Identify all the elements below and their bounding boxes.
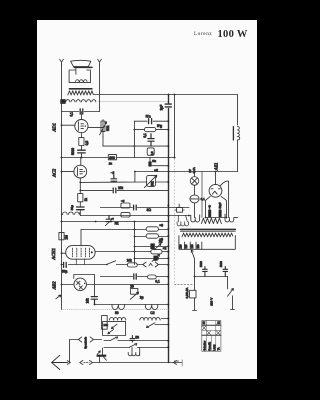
potentiometer 50k — [101, 121, 105, 132]
primary taps — [184, 242, 201, 249]
svg-text:10k: 10k — [86, 298, 90, 304]
wire grid row AD1 — [62, 111, 100, 113]
wire bar to bottom — [100, 348, 103, 363]
svg-text:R'a: R'a — [146, 115, 151, 119]
loudspeaker magnet pot — [69, 70, 90, 83]
junction x134 y251 — [134, 251, 136, 253]
coil arcs group1 — [112, 305, 124, 310]
electrolytic heater cell right — [219, 210, 222, 218]
svg-text:2µ: 2µ — [140, 295, 144, 299]
junction heater cell right — [226, 217, 228, 219]
wire antenna vertical — [70, 340, 79, 363]
arrow row258 — [152, 255, 160, 262]
wire lamp top — [194, 172, 196, 177]
wire field coil drop — [237, 95, 239, 126]
sperrkreis arrows — [78, 337, 101, 342]
pickup terminal bar — [181, 360, 183, 366]
loudspeaker cone — [71, 60, 91, 66]
tube AD1 — [75, 120, 88, 133]
wire AD1 to volume pot — [88, 120, 103, 137]
potentiometer tone 50k — [147, 175, 156, 186]
svg-text:Lang: Lang — [212, 344, 216, 350]
tube AZ1 filament — [211, 189, 220, 194]
resistor 50k row229 — [146, 227, 158, 231]
wire cap to junction — [79, 210, 81, 215]
wire right speaker lead — [99, 65, 101, 112]
coil loops y354 — [128, 348, 140, 356]
tube AB2 — [74, 278, 86, 290]
wire row y170.8 — [135, 172, 169, 183]
pot tone arrow — [144, 175, 156, 187]
junction left bus AC2 — [61, 171, 63, 173]
svg-text:10k: 10k — [103, 323, 108, 327]
tube ACH1 dot — [91, 251, 93, 253]
resistor 25k row236 — [146, 234, 158, 238]
wire Rk to bus — [150, 165, 168, 168]
svg-text:Schalter: Schalter — [202, 341, 206, 351]
junction row y221.7 c — [168, 221, 170, 223]
svg-text:125: 125 — [191, 244, 194, 249]
capacitor AD1 bypass — [78, 150, 86, 153]
band table header marks — [202, 321, 205, 324]
wire selector down — [194, 259, 196, 291]
wire row y215.8 — [80, 215, 191, 217]
junction x134 y236 — [134, 236, 136, 238]
output transformer secondary winding — [68, 91, 93, 95]
wire AZ1 heater right — [220, 181, 228, 218]
speaker terminal left — [60, 59, 64, 64]
svg-text:0,5: 0,5 — [85, 141, 89, 146]
junction row y215 right — [188, 215, 190, 217]
svg-text:10k: 10k — [127, 259, 133, 263]
resistor row264 — [127, 263, 137, 267]
speaker terminal right — [98, 59, 102, 64]
coil arcs group2 — [145, 305, 157, 310]
transformer core bottom — [180, 230, 235, 232]
loudspeaker center pole — [75, 67, 77, 74]
heater winding group1 — [177, 216, 188, 226]
mains fuse box — [190, 290, 196, 298]
switch below winding right — [146, 323, 168, 328]
capacitor 50u bus — [64, 262, 67, 267]
heater resistor left — [177, 208, 183, 213]
wire row y251.8 — [95, 251, 168, 253]
coil box partial — [102, 316, 108, 330]
svg-text:50k: 50k — [106, 125, 110, 131]
choke coil loops — [62, 212, 81, 214]
junction bus y157 — [168, 157, 170, 159]
capacitor below y215.8 — [106, 216, 112, 222]
transformer primary box — [179, 236, 235, 250]
page — [37, 20, 257, 379]
suppression cap b — [223, 267, 228, 277]
dashed link switch — [175, 284, 193, 286]
pilot lamp — [190, 177, 199, 186]
svg-text:5000: 5000 — [199, 261, 203, 267]
svg-text:=5: =5 — [121, 199, 125, 203]
wire coupling row y121 — [134, 120, 168, 122]
capacitor AC2 bypass — [77, 207, 85, 210]
svg-text:~2: ~2 — [111, 171, 115, 175]
wire AC2 cathode drop — [79, 178, 81, 194]
wire HT bus B x174 — [174, 95, 176, 158]
svg-text:300: 300 — [109, 156, 115, 160]
wire row y340.8 — [104, 340, 169, 342]
svg-text:2µ: 2µ — [159, 240, 163, 244]
resistor AC2 cathode — [78, 194, 83, 202]
tube AC2 — [74, 165, 87, 178]
heater winding group2 — [191, 218, 200, 222]
wire row y347.3 — [104, 347, 169, 349]
switch dot row264 — [106, 264, 108, 266]
svg-text:TA: TA — [218, 347, 221, 350]
junction bus B top — [174, 94, 176, 96]
wire row y146 — [103, 145, 168, 147]
wire AD1 cathode to AC2 anode — [80, 158, 82, 166]
wire AC2 grid — [62, 171, 74, 173]
resistor row251 — [151, 250, 162, 254]
capacitor AB2 out — [91, 297, 97, 305]
svg-text:0,1: 0,1 — [70, 112, 74, 117]
svg-text:R'g: R'g — [157, 124, 162, 128]
antenna big arrow — [52, 355, 68, 369]
junction x134 y146 — [134, 145, 136, 147]
junction y171.3 c — [194, 171, 196, 173]
tube AD1 electrodes — [78, 122, 83, 131]
svg-text:=2: =2 — [163, 246, 167, 250]
svg-text:=2: =2 — [154, 169, 158, 173]
capacitor series y276.9 — [134, 274, 136, 279]
svg-text:220: 220 — [179, 244, 182, 249]
wire heater cell bottom — [206, 217, 227, 219]
electrolytic row258 — [153, 256, 157, 261]
wire vertical x134 lower — [134, 222, 136, 265]
coupling dashes — [84, 362, 89, 364]
trimmer arrow — [130, 292, 138, 299]
svg-text:=9: =9 — [159, 224, 163, 228]
dashed gang link vertical — [174, 159, 176, 285]
wire winding right to bus — [161, 318, 168, 320]
wire AD1 anode stub — [80, 112, 82, 120]
tube AB2 diode plates — [77, 281, 83, 289]
band table frame — [202, 321, 221, 352]
wire vertical x134 — [133, 121, 135, 157]
junction AD1 cathode row — [80, 157, 82, 159]
output transformer core — [70, 88, 92, 90]
band table X marks — [203, 321, 220, 335]
wire row y207.5 — [100, 207, 189, 209]
resistor y276.9 — [148, 275, 157, 279]
antenna selector arrow — [97, 351, 106, 360]
junction x134 y221 — [134, 221, 136, 223]
wire bus to AB2 — [62, 284, 75, 286]
wire faint tap line y101 — [98, 100, 169, 102]
svg-text:25: 25 — [130, 285, 134, 289]
tube AC2 electrodes — [77, 168, 82, 176]
svg-text:3Ω: 3Ω — [147, 208, 152, 212]
svg-text:10k: 10k — [118, 186, 124, 190]
junction x134 y258 — [134, 258, 136, 260]
wire field coil to rectifier rail — [237, 140, 239, 172]
wire ground row y157 — [62, 157, 175, 159]
svg-text:100 W: 100 W — [218, 29, 248, 40]
wire to bypass cap — [79, 202, 81, 207]
svg-text:50k: 50k — [151, 181, 155, 187]
wire switch bottom — [231, 296, 235, 310]
loudspeaker cone base bar — [74, 66, 92, 68]
bus junction dots — [167, 120, 169, 348]
resistor row y215 upper — [121, 213, 130, 217]
wire row y304.5 — [95, 304, 169, 306]
wire ACH1 anode riser — [80, 230, 82, 246]
junction left bus ACH1 — [61, 252, 63, 254]
junction left bus y264 — [61, 264, 63, 266]
heater winding group3 — [201, 218, 221, 223]
coupling dashed double arrow — [80, 361, 93, 365]
svg-text:AD1: AD1 — [52, 123, 57, 132]
switch y347.3 — [129, 344, 136, 348]
wire long line to field coil — [93, 94, 237, 96]
band switch box — [103, 321, 126, 335]
arrow row246 — [154, 244, 161, 250]
electrolytic heater cell left — [208, 210, 211, 218]
antenna selector bar — [97, 355, 107, 357]
wire mains row y276 — [195, 276, 228, 278]
capacitor Ra coupling — [149, 119, 152, 124]
wire fuse to plug — [193, 298, 197, 311]
junction y171.3 a — [168, 171, 170, 173]
switch row y264.9 — [106, 261, 115, 265]
resistor on left bus — [59, 232, 64, 239]
svg-text:0,5/0,5A: 0,5/0,5A — [185, 288, 189, 299]
winding row1 right — [140, 318, 160, 320]
capacitor 0,1 vertical — [148, 134, 154, 146]
svg-text:Rundfk: Rundfk — [207, 341, 211, 350]
svg-text:AB2: AB2 — [51, 281, 56, 291]
capacitor 0,2 row — [111, 175, 117, 182]
band table thin row — [202, 329, 221, 331]
wire grid-leak row y129 — [134, 129, 168, 131]
wire left bus — [61, 65, 63, 310]
resistor vertical to row157 — [147, 148, 154, 155]
svg-text:1k: 1k — [84, 198, 88, 202]
transformer primary winding — [182, 233, 233, 237]
mains switch — [228, 288, 234, 296]
arrow at bus below AB2 — [56, 295, 61, 299]
wire bus to ACH1 — [62, 252, 66, 254]
svg-text:0,1: 0,1 — [155, 280, 160, 284]
wire row y190 — [80, 189, 168, 191]
wire heater cell stubs — [210, 205, 220, 210]
svg-text:50: 50 — [135, 335, 139, 339]
junction x134 y246 — [134, 246, 136, 248]
wire HT bus A x167 — [168, 95, 170, 363]
wire AZ1 skirt right — [221, 196, 226, 217]
capacitor series y190 — [113, 188, 116, 193]
fuse link — [190, 198, 199, 200]
electrolytic 2u row246 — [150, 243, 154, 249]
hum coil tap block — [61, 100, 66, 104]
svg-text:Lorenz: Lorenz — [194, 31, 212, 37]
capacitor Rk block — [149, 158, 151, 167]
capacitor y338 — [130, 336, 135, 342]
arrow Rk2 — [105, 218, 113, 226]
wire pickup line — [93, 362, 182, 364]
tube AZ1 — [209, 184, 222, 197]
junction y171.3 b — [215, 171, 217, 173]
wire row y246 — [135, 246, 169, 248]
tube AD1 cathode dot — [85, 125, 86, 126]
svg-text:50µ: 50µ — [62, 270, 68, 274]
wire row y229 — [81, 229, 169, 231]
svg-text:Rk: Rk — [115, 222, 119, 226]
wire AD1 cathode — [80, 133, 82, 138]
wire row y182 — [80, 181, 168, 183]
wire lamp second lead — [201, 172, 203, 218]
tube AB2 dot — [84, 283, 85, 284]
wire resistor to cap — [80, 146, 82, 150]
junction x134 y229 — [134, 229, 136, 231]
selector arm — [191, 250, 194, 259]
svg-text:Rk: Rk — [152, 159, 156, 163]
pilot lamp cross — [192, 178, 198, 184]
capacitor series y207.5 — [134, 205, 137, 210]
wire ACH1 bottom stubs — [76, 259, 84, 265]
coupling arrows a — [143, 262, 159, 267]
junction row y221.7 b — [95, 221, 97, 223]
wire row y258 — [135, 258, 169, 260]
wire AB2 right — [86, 284, 168, 286]
junction AC2 k — [79, 182, 81, 184]
tube ACH1 electrodes — [73, 248, 90, 257]
capacitor 3uF electrolytic — [165, 104, 171, 107]
resistor row y207.5 — [121, 203, 130, 208]
tube ACH1 — [66, 246, 95, 260]
resistor AD1 cathode — [79, 138, 84, 146]
band switch contacts — [108, 324, 117, 334]
svg-text:0,3: 0,3 — [150, 151, 154, 155]
wire cap to ground row — [80, 153, 82, 157]
wire bus B bottom bar — [175, 360, 179, 362]
svg-text:1M: 1M — [64, 235, 68, 240]
wire pot to row — [102, 136, 104, 146]
wire lamp bottom — [194, 185, 196, 194]
svg-text:AZ1: AZ1 — [213, 163, 218, 172]
junction y170.8 — [134, 171, 136, 173]
svg-text:ACH1: ACH1 — [51, 248, 56, 260]
switch y340.8 — [110, 337, 117, 341]
svg-text:220 V: 220 V — [209, 297, 213, 306]
resistor Rg — [144, 127, 155, 131]
junction bus A top — [168, 94, 170, 96]
capacitor 0.1 series — [80, 109, 83, 114]
wire row y276.9 — [100, 276, 168, 278]
svg-text:0,1: 0,1 — [143, 133, 147, 138]
band table thick dividers — [202, 325, 221, 335]
junction heater cell left — [205, 217, 207, 219]
fuse — [190, 195, 199, 203]
junction y304.5 — [94, 304, 96, 306]
wire switch top — [227, 277, 229, 289]
wire faint row y309.8 — [62, 309, 169, 311]
wire AZ1 anode stub — [215, 172, 217, 185]
svg-text:3µF: 3µF — [160, 105, 164, 111]
wire row y236 — [135, 236, 169, 238]
heater riser stubs — [191, 214, 225, 217]
trimmer box — [131, 288, 138, 294]
pickup arrowhead — [173, 361, 176, 365]
svg-text:2k: 2k — [109, 161, 113, 165]
wire AZ1 skirt left — [206, 196, 211, 217]
wire AB2 top loop — [74, 275, 95, 297]
svg-text:110: 110 — [185, 244, 188, 249]
svg-text:AC2: AC2 — [52, 168, 57, 178]
svg-text:0,1: 0,1 — [201, 197, 206, 201]
svg-text:0,4A: 0,4A — [192, 167, 196, 173]
wire AD1 grid — [62, 124, 75, 126]
svg-text:150: 150 — [197, 244, 200, 249]
heater winding group4 — [225, 218, 238, 222]
junction left bus AD1 grid — [61, 124, 63, 126]
winding row1 left — [109, 318, 125, 320]
tube AC2 dot — [84, 171, 85, 172]
svg-text:50µ: 50µ — [70, 205, 74, 210]
junction AC2 y190 — [79, 190, 81, 192]
wire row y264.9 with series cap at bus — [62, 264, 169, 266]
junction left bus y157 — [61, 157, 63, 159]
junction bus AB2 — [61, 284, 63, 286]
transformer core top — [180, 228, 235, 230]
voice coil — [76, 80, 87, 82]
junction selector mains — [194, 276, 196, 278]
svg-text:5000: 5000 — [71, 148, 75, 155]
junction x134 y129 — [134, 129, 136, 131]
svg-text:Sperrkreis: Sperrkreis — [83, 336, 87, 349]
potentiometer arrow — [100, 122, 107, 135]
hum coil with taps — [66, 100, 96, 102]
svg-text:C2: C2 — [150, 311, 154, 315]
heater squiggle left — [175, 204, 184, 210]
wire row y221.7 — [62, 221, 169, 223]
antenna small arrow — [67, 361, 70, 365]
field coil winding — [238, 126, 240, 140]
resistor 300 — [108, 155, 116, 160]
junction bus B end — [174, 157, 176, 159]
suppression cap a — [203, 267, 208, 277]
band table columns — [206, 321, 215, 352]
svg-text:50: 50 — [115, 311, 119, 315]
svg-text:5000: 5000 — [219, 261, 223, 267]
wire fuse down — [194, 203, 196, 218]
wire rectifier output row y171.3 — [169, 171, 238, 173]
junction row y221.7 a — [61, 221, 63, 223]
